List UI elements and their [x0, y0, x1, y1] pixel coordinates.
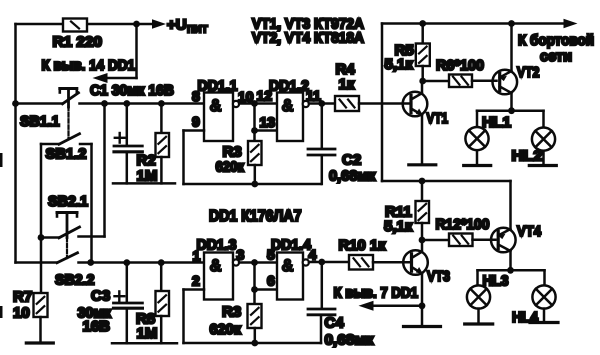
svg-text:C1 30мк 16В: C1 30мк 16В	[90, 82, 174, 99]
svg-text:HL2: HL2	[512, 148, 543, 165]
transistor VT2	[493, 70, 518, 95]
svg-text:VT2, VT4 КТ818А: VT2, VT4 КТ818А	[252, 30, 364, 47]
wire VT1 emitter	[421, 115, 424, 164]
resistor R3	[248, 141, 262, 165]
gate DD1.2	[277, 93, 303, 142]
wire SB1.2 right contact down	[90, 144, 93, 263]
wire pin 13	[255, 129, 278, 132]
node C4 top	[318, 259, 325, 266]
node pin13	[251, 127, 258, 134]
wire DD1.3 out to DD1.4 in	[239, 261, 277, 264]
switch SB2 actuator	[57, 211, 77, 214]
resistor R7	[34, 293, 48, 317]
node lamps top	[508, 107, 515, 114]
node R11 top	[419, 178, 426, 185]
svg-text:1M: 1M	[137, 168, 158, 185]
resistor R3 lower	[248, 304, 262, 328]
arrow to pin 14	[93, 73, 108, 83]
svg-text:VT2: VT2	[517, 64, 540, 81]
wire VT2 emitter up	[510, 24, 513, 72]
wire bottom feedback	[184, 183, 321, 186]
lamp HL3	[467, 285, 490, 308]
wire supply down	[381, 24, 384, 182]
svg-text:R7: R7	[13, 289, 32, 306]
svg-text:R10 1к: R10 1к	[339, 237, 386, 254]
svg-text:К бортовой: К бортовой	[518, 32, 594, 49]
resistor R8	[160, 263, 163, 291]
wire SB1.2 left contact down	[40, 144, 43, 293]
svg-text:DD1.2: DD1.2	[269, 78, 309, 95]
svg-text:DD1.1: DD1.1	[198, 78, 238, 95]
wire R4 to VT1 base	[359, 102, 410, 105]
node R3 lower bottom	[251, 340, 258, 347]
svg-text:&: &	[210, 257, 221, 275]
svg-text:R12*100: R12*100	[436, 216, 490, 233]
svg-text:C4: C4	[325, 315, 345, 332]
resistor R2	[160, 104, 163, 134]
svg-text:R1 220: R1 220	[53, 34, 103, 51]
svg-text:&: &	[282, 97, 293, 115]
wire DD1.2 out	[309, 102, 335, 105]
svg-text:R3: R3	[222, 304, 241, 321]
wire pin 9 feedback	[184, 129, 205, 132]
svg-text:R2: R2	[137, 152, 156, 169]
ground HL1	[464, 164, 491, 167]
ground HL2	[529, 164, 556, 167]
svg-text:HL3: HL3	[483, 273, 509, 290]
node C1 top	[123, 100, 130, 107]
lamp HL1	[465, 127, 488, 150]
svg-text:6: 6	[267, 273, 275, 289]
svg-text:0,68мк: 0,68мк	[329, 168, 376, 185]
svg-text:5,1к: 5,1к	[385, 56, 414, 73]
wire VT3 emitter	[421, 274, 424, 326]
wire bottom C1-R2	[113, 182, 175, 185]
capacitor C2	[321, 104, 324, 148]
node R5 bottom	[419, 78, 426, 85]
transistor VT1	[403, 92, 428, 117]
svg-text:+U: +U	[167, 17, 187, 34]
svg-text:620к: 620к	[216, 159, 245, 176]
node R5 top	[419, 20, 426, 27]
wire VT4 emitter up	[509, 181, 512, 229]
wire bottom feedback lower	[184, 342, 322, 345]
wire to HL1 HL2	[477, 109, 544, 112]
wire node B lower input rail	[91, 261, 204, 264]
arrow to pin 7	[359, 301, 374, 311]
resistor R6	[423, 80, 449, 83]
capacitor C3	[126, 263, 129, 302]
svg-text:SB2.2: SB2.2	[55, 272, 95, 289]
wire to HL3 HL4	[478, 269, 545, 272]
svg-text:11: 11	[306, 88, 321, 104]
node pin6	[251, 286, 258, 293]
wire DD1.4 out	[309, 261, 349, 264]
wire DD1.1 out to DD1.2 in	[239, 102, 277, 105]
node rail / SB1.1	[12, 100, 19, 107]
svg-text:16В: 16В	[83, 318, 111, 335]
svg-text:DD1.3: DD1.3	[197, 237, 237, 254]
svg-text:&: &	[282, 257, 293, 275]
svg-text:К выв. 7 DD1: К выв. 7 DD1	[334, 285, 419, 302]
node R2 top	[158, 100, 165, 107]
wire top right rail	[382, 22, 564, 25]
ground HL4	[530, 321, 558, 324]
node mid lower	[251, 259, 258, 266]
node SB1.2 feed	[87, 259, 94, 266]
resistor R10	[349, 255, 373, 270]
capacitor C1	[126, 104, 129, 145]
wire VT3 collector	[421, 240, 424, 252]
switch SB2.2	[16, 261, 58, 264]
gate DD1.4	[277, 253, 303, 300]
svg-text:1: 1	[193, 248, 201, 264]
svg-text:DD1.4: DD1.4	[271, 237, 312, 254]
resistor R11	[421, 181, 424, 201]
svg-text:R6*100: R6*100	[436, 57, 484, 74]
ground VT3	[404, 325, 441, 328]
lamp HL4	[532, 285, 555, 308]
ground R7	[26, 341, 53, 344]
node mid	[251, 100, 258, 107]
svg-text:3: 3	[237, 247, 245, 263]
switch SB1 actuator	[60, 87, 77, 90]
arrow К бортовой сети	[564, 19, 578, 29]
wire bottom C3-R8	[112, 342, 177, 345]
svg-text:0,68мк: 0,68мк	[325, 332, 374, 349]
resistor R12	[422, 239, 449, 242]
svg-text:2: 2	[192, 273, 200, 289]
transistor VT3	[403, 250, 428, 275]
svg-text:сети: сети	[540, 48, 572, 65]
wire pin 6	[255, 288, 278, 291]
transistor VT4	[491, 228, 516, 253]
wire R10 to VT3 base	[373, 261, 410, 264]
wire to pin 14 DD1	[135, 24, 138, 78]
wire VT2 collector down	[510, 93, 513, 111]
node R8 top	[158, 259, 165, 266]
svg-text:9: 9	[192, 114, 200, 130]
svg-text:К выв. 14 DD1: К выв. 14 DD1	[42, 57, 136, 74]
wire top-left supply rail	[16, 23, 64, 26]
svg-text:VT3: VT3	[427, 268, 450, 285]
resistor R5	[421, 24, 424, 44]
node R11 bottom	[419, 237, 426, 244]
wire SB2.1 right contact up to node A	[103, 104, 106, 237]
resistor R4	[335, 96, 359, 111]
svg-text:HL1: HL1	[482, 114, 511, 131]
svg-text:1M: 1M	[137, 325, 158, 342]
svg-text:SB2.1: SB2.1	[48, 193, 88, 210]
node VT2 emitter top	[508, 20, 515, 27]
node R3 bottom	[251, 181, 258, 188]
svg-text:&: &	[210, 97, 221, 115]
svg-text:DD1 К176ЛА7: DD1 К176ЛА7	[209, 208, 302, 225]
lamp HL2	[532, 128, 555, 151]
wire left rail	[14, 24, 17, 263]
plus sign C1	[115, 137, 125, 139]
wire pin 2 feedback	[184, 288, 205, 291]
node C3 top	[123, 259, 130, 266]
svg-text:VT4: VT4	[517, 223, 542, 240]
gate DD1.3	[204, 253, 233, 300]
arrow +Upit	[152, 19, 166, 29]
node junction R1 output	[133, 21, 140, 28]
svg-text:SB1.1: SB1.1	[20, 113, 60, 130]
svg-text:C3: C3	[91, 288, 110, 305]
ground VT1	[409, 163, 436, 166]
svg-text:13: 13	[260, 114, 276, 130]
svg-text:VT1: VT1	[427, 110, 449, 127]
gate DD1.1	[204, 93, 233, 142]
svg-text:1к: 1к	[339, 76, 355, 93]
svg-text:5,1к: 5,1к	[384, 218, 413, 235]
svg-text:10: 10	[13, 305, 30, 322]
ground HL3	[465, 322, 493, 325]
node C2 top	[318, 100, 325, 107]
switch SB2.1 contacts	[38, 234, 45, 241]
plus sign C3	[115, 295, 125, 297]
svg-text:4: 4	[309, 247, 317, 263]
svg-text:620к: 620к	[210, 321, 242, 338]
switch SB1.1	[16, 102, 63, 105]
wire second rail	[382, 180, 511, 183]
node pin7 wire	[419, 302, 426, 309]
node lamps bottom	[507, 267, 514, 274]
wire VT4 collector down	[509, 251, 512, 270]
wire VT1 collector	[421, 81, 424, 93]
capacitor C4	[321, 262, 324, 308]
wire to pin 7	[374, 305, 422, 308]
svg-text:пит: пит	[187, 21, 208, 36]
svg-text:8: 8	[192, 88, 200, 104]
svg-text:SB1.2: SB1.2	[46, 146, 87, 163]
resistor R1	[63, 19, 87, 32]
svg-text:C2: C2	[342, 152, 361, 169]
switch SB1.2	[41, 143, 59, 146]
